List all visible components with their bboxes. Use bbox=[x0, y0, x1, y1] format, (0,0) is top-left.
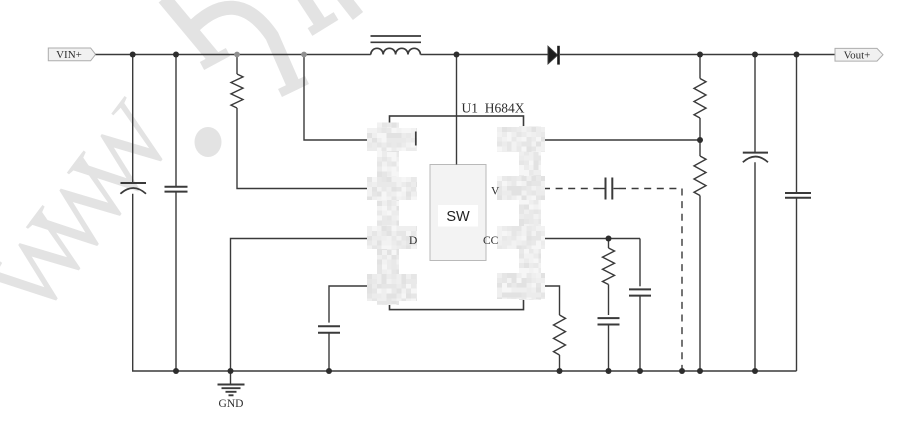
censor blob pin 7 bbox=[497, 176, 545, 200]
wire pin4 net bbox=[329, 286, 390, 323]
node C1 top bbox=[130, 52, 136, 58]
svg-text:CC: CC bbox=[483, 235, 499, 247]
svg-text:GND: GND bbox=[219, 398, 244, 410]
capacitor C8 (output cap) bbox=[796, 55, 798, 194]
Vout+ port flag bbox=[835, 48, 883, 61]
wire top rail bbox=[96, 54, 371, 56]
resistor R5 bbox=[554, 315, 566, 355]
svg-text:D: D bbox=[409, 235, 417, 247]
node divider bottom bbox=[697, 368, 703, 374]
svg-text:V: V bbox=[491, 186, 500, 198]
capacitor C7 (polarized output cap) bbox=[754, 55, 756, 153]
censor blob pin 1 bbox=[367, 128, 417, 151]
node dashed net bottom bbox=[679, 368, 685, 374]
node C7 top bbox=[752, 52, 758, 58]
censor blob pin 5 bbox=[497, 273, 545, 299]
node C2 top bbox=[173, 52, 179, 58]
censor blob pin 8 bbox=[497, 127, 545, 152]
censor blob pin 6 bbox=[497, 226, 545, 249]
wire pin3 GND net bbox=[231, 239, 390, 372]
node C6 bottom bbox=[637, 368, 643, 374]
capacitor C4 (series comp) bbox=[605, 178, 607, 200]
wire bottom rail bbox=[132, 370, 797, 372]
node SW bbox=[454, 52, 460, 58]
capacitor C5 bbox=[598, 317, 620, 319]
node FB bbox=[697, 137, 703, 143]
censor strip left pins bbox=[377, 123, 399, 306]
node VCC bbox=[606, 236, 612, 242]
capacitor C3 bbox=[318, 325, 340, 327]
VIN+ port flag bbox=[48, 48, 95, 61]
censor strip right pins bbox=[519, 126, 541, 300]
capacitor C2 (input cap) bbox=[175, 55, 177, 187]
svg-text:U1 H684X: U1 H684X bbox=[462, 101, 525, 116]
node C7 bottom bbox=[752, 368, 758, 374]
node GND stub bbox=[228, 368, 234, 374]
resistor R3 (lower divider) bbox=[699, 140, 701, 156]
wire pin5 net bbox=[524, 286, 560, 315]
resistor R1 (to EN pin) bbox=[236, 55, 238, 75]
capacitor C6 bbox=[639, 239, 641, 287]
wire pin8 FB net bbox=[524, 139, 701, 141]
ground symbol bbox=[230, 371, 232, 385]
node R5 bottom bbox=[557, 368, 563, 374]
wire SW node bbox=[456, 55, 458, 165]
svg-text:VIN+: VIN+ bbox=[56, 49, 82, 61]
wire R1 to pin2 bbox=[237, 108, 390, 189]
node C5 bottom bbox=[606, 368, 612, 374]
capacitor C1 (polarized input cap) bbox=[132, 55, 134, 184]
node Vout divider top bbox=[697, 52, 703, 58]
node VIN branch bbox=[301, 52, 307, 58]
resistor R2 (upper divider) bbox=[699, 55, 701, 79]
diode D1 bbox=[548, 46, 558, 64]
node R1 top bbox=[234, 52, 240, 58]
pin label fragments bbox=[415, 132, 417, 146]
svg-text:SW: SW bbox=[446, 209, 470, 225]
censor blob pin 4 bbox=[367, 274, 417, 301]
wire VIN node to pin1 bbox=[304, 55, 390, 141]
IC inner SW block bbox=[430, 165, 486, 261]
inductor L1 bbox=[371, 36, 422, 55]
node C8 top bbox=[794, 52, 800, 58]
svg-text:Vout+: Vout+ bbox=[844, 50, 871, 62]
wire pin7 dashed comp net bbox=[543, 188, 599, 190]
node C3 bottom bbox=[326, 368, 332, 374]
op-amp U1 H684X converter IC body bbox=[390, 116, 524, 310]
wire R5 to ground rail bbox=[559, 355, 561, 371]
node C2 bottom bbox=[173, 368, 179, 374]
resistor R4 bbox=[608, 239, 610, 249]
censor blob pin 3 bbox=[367, 226, 417, 249]
censor blob pin 2 bbox=[367, 177, 417, 200]
wire pin6 VCC net bbox=[524, 238, 641, 240]
